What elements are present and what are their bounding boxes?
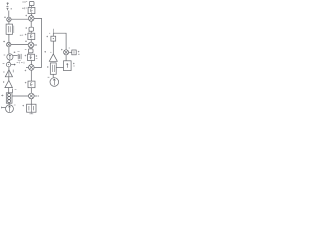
wire xyxy=(56,67,63,69)
wire xyxy=(30,70,32,81)
wire xyxy=(9,88,13,93)
integrator U2 xyxy=(20,31,35,39)
wire xyxy=(30,40,32,43)
amplifier A3 xyxy=(49,52,57,61)
wire xyxy=(30,14,32,16)
label xyxy=(15,88,17,90)
wire xyxy=(30,61,32,65)
wire xyxy=(8,11,10,18)
wire xyxy=(65,55,67,61)
mixer M1 xyxy=(25,15,34,21)
output box U5 xyxy=(22,104,36,114)
mixer M4 xyxy=(29,93,39,99)
amplifier A2 xyxy=(3,77,12,88)
wire xyxy=(8,47,10,54)
wire xyxy=(69,51,72,53)
integrator U3 xyxy=(25,54,38,60)
transformer TR1 xyxy=(1,93,12,103)
filter RB2 xyxy=(64,61,75,71)
wire xyxy=(30,21,32,27)
integrator U1 xyxy=(22,6,35,14)
wire xyxy=(12,95,28,97)
integrator U4 xyxy=(25,81,35,88)
mixer M3 xyxy=(25,65,34,72)
mixer X2 xyxy=(3,41,11,47)
input signal label s(t) xyxy=(6,2,12,10)
label xyxy=(44,51,46,53)
oscillator G2 xyxy=(1,105,15,113)
amplifier A1 xyxy=(3,67,13,77)
filter RB1 xyxy=(47,63,56,74)
node circle N1 xyxy=(3,62,11,66)
mixer M2 xyxy=(25,41,34,48)
wire M1 to M3 xyxy=(34,18,42,67)
attenuator B1 xyxy=(46,33,55,41)
oscillator G1 xyxy=(4,52,16,61)
wire xyxy=(52,74,54,77)
load R1 xyxy=(72,50,80,55)
wire xyxy=(11,18,28,20)
wire xyxy=(30,48,32,49)
label row xyxy=(17,62,24,64)
mixer X1 xyxy=(4,17,11,22)
wire xyxy=(30,99,32,104)
wire xyxy=(34,44,37,46)
current source I1 xyxy=(48,77,59,86)
capacitor C1 xyxy=(13,52,21,61)
wire xyxy=(8,22,10,25)
wire xyxy=(11,44,28,46)
microphone MIC1 xyxy=(22,1,34,7)
wire xyxy=(8,34,10,42)
filter box F1 xyxy=(6,24,14,34)
microphone MIC2 xyxy=(25,27,33,32)
wire xyxy=(8,103,10,104)
microphone MIC3 xyxy=(25,49,33,54)
wire top right xyxy=(53,33,66,50)
mixer M5 xyxy=(61,48,70,55)
wire xyxy=(30,88,32,94)
wire xyxy=(9,60,10,62)
wire arrow xyxy=(11,64,16,65)
wire xyxy=(52,41,54,54)
